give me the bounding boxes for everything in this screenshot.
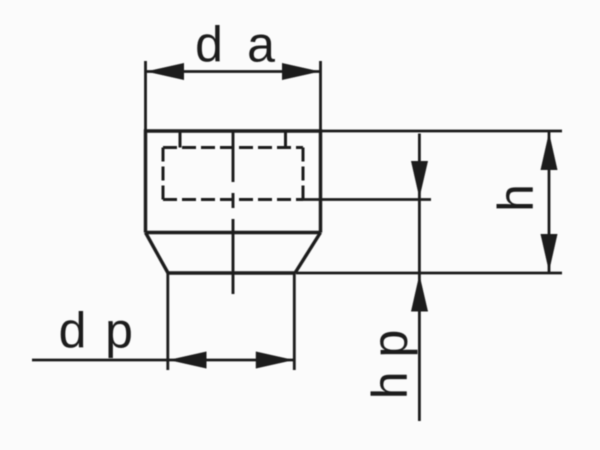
- svg-text:a: a: [247, 16, 275, 72]
- svg-text:d: d: [59, 303, 87, 359]
- dimension h: [296, 131, 562, 273]
- thread chamfer notch left: [179, 131, 182, 148]
- nut body outline: [146, 131, 321, 273]
- dimension d p: [32, 273, 294, 370]
- dimension h p: [303, 134, 431, 422]
- svg-text:d: d: [195, 16, 223, 72]
- svg-text:h p: h p: [362, 330, 418, 400]
- center line: [232, 130, 235, 294]
- thread chamfer notch right: [284, 131, 287, 148]
- thread hole hidden outline (dashed): [163, 148, 303, 200]
- dimension d a: [146, 16, 321, 131]
- svg-text:h: h: [488, 184, 544, 212]
- svg-text:p: p: [105, 303, 133, 359]
